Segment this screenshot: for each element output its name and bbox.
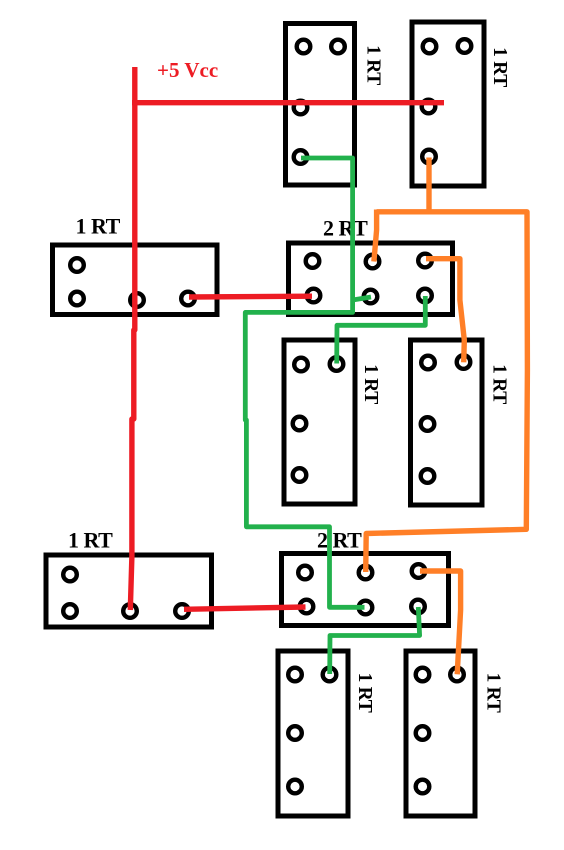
svg-text:1 RT: 1 RT: [483, 673, 504, 713]
svg-text:1 RT: 1 RT: [489, 47, 510, 87]
terminal pins of block C: [70, 258, 195, 307]
terminal block G body (1 RT, lower-left): [46, 555, 212, 627]
terminal pins of block A: [294, 40, 345, 164]
terminal pins of block D: [306, 254, 432, 304]
wire red block C pin4 to block D pin4: [189, 294, 312, 300]
wire green block H pin6 to block I pin2: [330, 607, 420, 674]
svg-text:1 RT: 1 RT: [489, 364, 510, 404]
svg-text:+5 Vcc: +5 Vcc: [157, 58, 218, 82]
terminal block C body (1 RT, upper-left): [53, 245, 218, 315]
terminal block J body (1 RT, bottom-right): [406, 651, 475, 816]
wire orange drop from block B pin4: [426, 158, 431, 215]
terminal block H body (2 RT, lower-middle): [282, 554, 449, 626]
wire red +5Vcc horizontal to blocks A and B: [132, 100, 444, 105]
terminal pins of block H: [298, 564, 425, 614]
terminal block B body (1 RT, top-right): [412, 22, 484, 186]
svg-text:1 RT: 1 RT: [76, 213, 121, 238]
terminal pins of block J: [416, 668, 464, 794]
terminal block I body (1 RT, bottom-middle): [278, 651, 348, 816]
wire red block G pin4 to block H pin4: [184, 607, 306, 609]
svg-text:2 RT: 2 RT: [323, 215, 368, 240]
wire green branch to block D pin5: [353, 297, 371, 300]
wire orange main run to block H pin2 via right side: [366, 212, 528, 572]
wire orange block D pin3 to block F pin2: [426, 259, 464, 363]
terminal pins of block E: [293, 357, 344, 482]
terminal block F body (1 RT, middle-right): [411, 340, 483, 505]
wire green main net: block A pin4 down-around to block H pin5: [245, 158, 364, 607]
svg-text:1 RT: 1 RT: [363, 45, 384, 85]
svg-text:1 RT: 1 RT: [354, 673, 375, 713]
svg-text:1 RT: 1 RT: [68, 527, 113, 552]
svg-text:1 RT: 1 RT: [360, 364, 381, 404]
wire orange block H pin3 to block J pin2: [420, 571, 461, 674]
terminal block E body (1 RT, middle-center): [284, 340, 355, 504]
terminal pins of block B: [422, 39, 472, 163]
svg-text:2 RT: 2 RT: [317, 528, 362, 553]
terminal pins of block I: [288, 668, 336, 794]
terminal block A body (1 RT, top-middle): [286, 24, 355, 186]
terminal pins of block F: [421, 355, 471, 483]
terminal block D body (2 RT, upper-middle): [289, 243, 453, 315]
wire red +5Vcc vertical trunk: [130, 67, 135, 610]
terminal pins of block G: [63, 568, 189, 618]
wire orange branch down to block D pin2: [374, 210, 377, 262]
wire green block D pin6 to block E pin2: [337, 296, 426, 364]
